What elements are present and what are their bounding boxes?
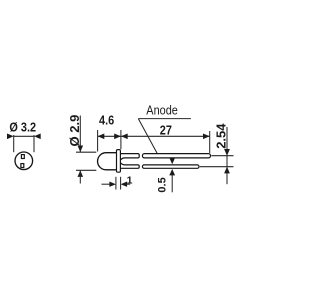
- extension line Ø3.2 right: [33, 135, 35, 152]
- cathode lead segment 1 (with fork flare): [121, 163, 140, 168]
- svg-text:4.6: 4.6: [99, 113, 114, 128]
- arrow Ø2.9 up: [78, 170, 84, 177]
- arrow Ø3.2 left (outside, pointing right): [7, 134, 14, 140]
- LED body (side view): [98, 153, 117, 170]
- dimension line 2.54: [226, 127, 228, 184]
- dimension line 27: [121, 135, 210, 137]
- dimension tail 0.5: [171, 175, 173, 192]
- svg-text:2.54: 2.54: [213, 123, 228, 149]
- arrow 27 right (pointing right): [203, 134, 210, 140]
- arrow Ø2.9 down: [78, 146, 84, 153]
- dimension line Ø3.2: [14, 135, 34, 137]
- extension line 2.54 top: [211, 155, 233, 157]
- dimension line Ø2.9 upper tail: [79, 116, 81, 153]
- arrow 0.5 down (pointing down at lead top): [169, 158, 175, 164]
- Anode leader underline: [138, 118, 191, 120]
- extension line Ø3.2 left: [13, 135, 15, 152]
- arrow 1 right (pointing left): [121, 182, 128, 187]
- extension line 4.6 left: [97, 130, 99, 152]
- svg-text:0.5: 0.5: [157, 177, 169, 192]
- extension line 2.54 bottom: [200, 166, 234, 168]
- arrow 2.54 down: [224, 149, 230, 156]
- svg-text:Ø 3.2: Ø 3.2: [9, 120, 36, 135]
- LED flange: [117, 150, 121, 173]
- arrow 4.6 left (inside, pointing left): [98, 134, 105, 140]
- extension line 1 left: [115, 177, 117, 190]
- extension line Ø2.9 top: [76, 151, 96, 153]
- anode lead segment 2: [142, 154, 210, 158]
- extension line 4.6 right / 27 left: [120, 130, 122, 149]
- arrow 1 left (pointing right): [109, 182, 116, 187]
- dimension line Ø2.9 lower tail: [79, 170, 81, 183]
- svg-text:Ø 2.9: Ø 2.9: [67, 115, 82, 147]
- anode lead segment 1 (with fork flare): [121, 154, 140, 160]
- arrow 0.5 up (pointing up at lead bottom): [169, 169, 175, 175]
- top view lower lead square: [21, 164, 24, 168]
- arrow 2.54 up: [224, 167, 230, 174]
- top view upper lead square: [21, 155, 24, 159]
- arrow 27 left (pointing left): [121, 134, 128, 140]
- extension line Ø2.9 bottom: [76, 169, 96, 171]
- arrow Ø3.2 right (outside, pointing left): [34, 134, 41, 140]
- dimension line 4.6: [98, 135, 121, 137]
- LED top view circle: [15, 152, 33, 170]
- Anode leader diagonal: [138, 119, 157, 154]
- cathode lead segment 2: [142, 165, 199, 168]
- arrow 4.6 right (inside, pointing right): [114, 134, 121, 140]
- extension line 27 right: [209, 131, 211, 153]
- arrow 1 left tail: [102, 183, 110, 185]
- svg-text:27: 27: [160, 123, 172, 138]
- extension line 1 right: [120, 177, 122, 190]
- svg-text:Anode: Anode: [146, 103, 178, 118]
- arrow 1 right tail: [127, 183, 130, 185]
